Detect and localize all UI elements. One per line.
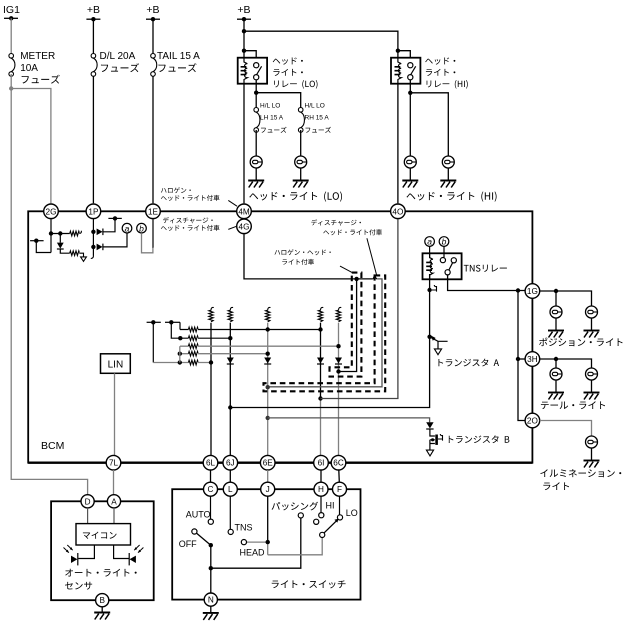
wire a to TNS coil [429, 246, 431, 257]
svg-text:F: F [337, 485, 342, 494]
svg-text:D: D [85, 497, 91, 506]
pointer discharge to 4G [228, 226, 237, 229]
svg-text:10A: 10A [20, 63, 38, 74]
connector 4G [237, 219, 252, 234]
svg-text:1P: 1P [88, 207, 99, 216]
wire b to TNS contact [443, 246, 445, 257]
label METER 10A fuse [20, 51, 60, 84]
svg-text:H/L LO: H/L LO [260, 102, 280, 109]
svg-text:3H: 3H [527, 355, 538, 364]
wire lamp LH to ground [255, 168, 257, 181]
connector 7L [106, 455, 121, 470]
connector 1G [525, 284, 540, 299]
label tail light [541, 401, 605, 409]
wire METER fuse down left side to sensor D [9, 74, 88, 495]
photodiode right [129, 553, 136, 565]
wire b to 1E [142, 233, 153, 253]
svg-text:N: N [208, 596, 214, 605]
node stub A [147, 320, 161, 324]
ground position LH [548, 331, 564, 338]
wire TNS contact to 1G [448, 275, 525, 293]
wire 6I to H [320, 470, 322, 482]
microcomputer box [76, 524, 131, 545]
relay TNS coil [430, 253, 433, 279]
label light switch [272, 580, 346, 588]
wire transistor A line to 6J [230, 337, 429, 408]
resistor row5 [188, 360, 198, 365]
node IG1 terminal [4, 16, 18, 20]
wire 6L column [210, 323, 212, 456]
label D/L 20A fuse [100, 51, 140, 72]
svg-text:6C: 6C [333, 459, 344, 468]
wire diode to internal node [103, 218, 115, 231]
lamp illumination [51, 436, 621, 620]
connector D [81, 495, 94, 508]
wire 3H to tail lamps [540, 357, 592, 368]
resistor pull-up 6J column [228, 307, 233, 321]
resistor to reference triangle [70, 251, 80, 256]
transistor Q A [427, 335, 447, 355]
wire rows 3-4-5 tie [179, 346, 181, 362]
wire C to AUTO contact [210, 496, 212, 519]
wire N to ground [210, 606, 212, 613]
lamp position LH [51, 306, 622, 620]
ground light switch N [203, 613, 219, 620]
switch arm main [197, 533, 213, 547]
wire 2G internal [49, 219, 53, 253]
wire row1 [180, 327, 323, 331]
wire stub to 2G column [36, 241, 51, 253]
wire tail lamps to ground [556, 380, 592, 393]
wire lamp RH to ground [300, 168, 302, 181]
wire LIN to 7L [114, 373, 116, 455]
svg-text:HI: HI [326, 501, 335, 511]
svg-text:H: H [318, 485, 324, 494]
label TAIL 15 A fuse [157, 51, 200, 72]
label halogen variant (4M) [161, 187, 220, 201]
label position light [539, 338, 623, 347]
light switch box [172, 489, 360, 599]
connector B [96, 594, 109, 607]
wire HEAD contact [246, 541, 265, 543]
diode 2G branch [57, 234, 64, 250]
pointer halogen to dashed path [340, 266, 352, 273]
wire 6C to F [338, 470, 341, 482]
relay headlight LO box [238, 58, 267, 84]
svg-text:4O: 4O [392, 207, 403, 216]
svg-text:METER: METER [20, 51, 55, 62]
connector A [107, 495, 120, 508]
reference triangle transistor B [426, 450, 433, 456]
BCM box [28, 211, 532, 462]
wire 6J to L [229, 470, 231, 482]
LIN box [101, 354, 131, 374]
svg-text:b: b [139, 223, 144, 233]
wire HI relay contact out [408, 80, 412, 156]
svg-text:D/L 20A: D/L 20A [100, 51, 136, 62]
wire diode to resistor [60, 249, 69, 253]
wire A to microcomputer [113, 508, 115, 524]
diode 1P upper [97, 229, 103, 236]
ground headlight LO RH [293, 181, 309, 188]
svg-text:1E: 1E [148, 207, 159, 216]
lamp tail LH [51, 368, 621, 620]
wire RH fuse to lamp [300, 130, 302, 156]
resistor pull-up 6C column [336, 307, 341, 321]
wire 6E column [266, 323, 270, 456]
relay LO contact [254, 63, 262, 80]
wire row5 [153, 360, 213, 364]
relay LO coil [244, 58, 247, 84]
svg-text:7L: 7L [109, 459, 119, 468]
lamp tail RH [51, 368, 621, 620]
relay TNS contact [440, 258, 456, 275]
contact HEAD [241, 540, 246, 545]
wire 6L to C [210, 470, 212, 482]
wire J to HEAD node [266, 496, 270, 555]
svg-text:LO: LO [346, 508, 358, 518]
svg-text:6I: 6I [318, 459, 325, 468]
wire HI RH lamp to ground [447, 168, 449, 181]
dashed outline halogen variant [330, 273, 362, 377]
wire 2O to illumination lamp [540, 421, 592, 437]
label headlight relay LO [273, 57, 318, 88]
wire 6E to J [267, 470, 269, 482]
node stub B [165, 320, 180, 324]
wire passing branch [211, 518, 301, 568]
resistor row1 [188, 327, 198, 332]
wire resistor to triangle [79, 253, 83, 257]
node internal T-bar [108, 216, 121, 220]
wire branch to BCM 2G [11, 89, 51, 204]
svg-text:H/L LO: H/L LO [305, 102, 325, 109]
label headlight LO [249, 192, 342, 202]
diode 6I column [317, 358, 324, 365]
wire 1G to position lamps [540, 289, 592, 306]
wire TNS coil down [427, 274, 431, 337]
svg-text:LIN: LIN [108, 360, 124, 371]
switch arm dimmer to LO [324, 519, 339, 534]
svg-text:L: L [228, 485, 233, 494]
ground tail LH [548, 393, 564, 400]
node stub left of 2G [30, 239, 43, 243]
svg-text:4M: 4M [238, 207, 250, 216]
wire resistor tail hook [79, 231, 81, 234]
svg-text:a: a [125, 223, 130, 233]
wire 4O to 6I column [321, 219, 398, 399]
wire L to TNS contact [229, 496, 231, 529]
wire LH fuse to lamp [255, 130, 257, 156]
connector 4M [237, 204, 252, 219]
relay HI coil [398, 58, 401, 84]
wire 3H tap [518, 358, 525, 360]
lamp position RH [51, 306, 622, 620]
node tick at coil output [432, 285, 437, 292]
svg-text:BCM: BCM [41, 440, 64, 452]
wire J to dimmer common [268, 537, 323, 554]
wire 6I column [318, 323, 322, 456]
wire 1G tap down to 3H and 2O [516, 291, 525, 421]
svg-text:+B: +B [237, 4, 250, 16]
label discharge variant (inner) [311, 219, 382, 235]
wire halogen variant to 6C column [336, 279, 356, 374]
connector C [204, 482, 218, 496]
label headlight relay HI [425, 57, 468, 88]
wire 1P column end hook [91, 256, 94, 259]
node b (BCM) [137, 223, 147, 233]
label illumination light [540, 469, 621, 490]
wire +B to D/L fuse to 1P [92, 19, 94, 203]
resistor row4 [188, 351, 198, 356]
svg-text:TAIL 15 A: TAIL 15 A [157, 51, 200, 62]
wire row4 [178, 352, 270, 356]
svg-text:TNS: TNS [235, 523, 253, 533]
contact OFF [192, 529, 197, 534]
node a (BCM) [122, 223, 132, 233]
connector 1P [86, 204, 101, 219]
ground headlight LO LH [248, 181, 264, 188]
wire branch +B to HI relay [244, 31, 400, 58]
ground headlight HI LH [402, 181, 418, 188]
label discharge variant (4G) [161, 217, 220, 231]
relay TNS box [423, 253, 462, 279]
connector 2G [44, 204, 59, 219]
node +B terminal (TAIL) [146, 17, 160, 21]
photodiode left [71, 553, 78, 565]
wire 1P internal column [91, 219, 95, 256]
connector 6J [223, 455, 238, 470]
svg-text:a: a [427, 237, 432, 247]
wire illumination lamp to ground [591, 448, 593, 461]
connector H [314, 482, 328, 496]
svg-text:AUTO: AUTO [186, 510, 211, 520]
label halogen variant (inner) [274, 249, 330, 265]
wire main switch common to N [209, 545, 213, 593]
connector 6I [314, 455, 329, 470]
contact LO [337, 515, 342, 520]
svg-text:1G: 1G [527, 287, 538, 296]
wire B to ground [101, 607, 103, 613]
contact HI [319, 513, 324, 518]
wire H to HI contact [320, 496, 322, 512]
connector 2O [525, 413, 540, 428]
pointer halogen to 4M [228, 200, 237, 206]
label headlight HI [407, 192, 497, 202]
wire LO relay contact feed [244, 51, 256, 58]
diode transistor B input [426, 422, 433, 429]
connector 1E [146, 204, 161, 219]
resistor 2G row [70, 231, 80, 236]
node a (TNS) [425, 237, 435, 247]
label auto light sensor [65, 569, 137, 590]
connector L [223, 482, 237, 496]
light arrows right [134, 545, 143, 553]
node +B terminal (headlight relays) [237, 17, 251, 21]
contact TNS [228, 529, 233, 534]
ground headlight HI RH [440, 181, 456, 188]
relay headlight HI box [391, 58, 420, 84]
wire left photodiode [78, 545, 94, 559]
wire 4G to variant junction [244, 233, 372, 281]
label passing [272, 502, 319, 511]
wire stub B down to row2 [171, 322, 180, 338]
resistor pull-up 6E column [266, 307, 271, 321]
svg-text:LH 15 A: LH 15 A [260, 115, 284, 122]
label transistor A [438, 359, 499, 367]
svg-text:4G: 4G [239, 222, 250, 231]
contact dimmer rest [314, 519, 319, 524]
svg-text:A: A [111, 497, 117, 506]
wire position lamps to ground [556, 318, 592, 331]
wire 6J column [228, 323, 232, 456]
ground tail RH [584, 393, 600, 400]
wire diode to node a [103, 233, 127, 247]
relay HI contact [408, 63, 416, 80]
svg-text:2G: 2G [46, 207, 57, 216]
svg-text:6L: 6L [206, 459, 216, 468]
svg-text:HEAD: HEAD [240, 547, 266, 557]
label TNS relay [464, 265, 507, 272]
svg-text:2O: 2O [527, 416, 538, 425]
wire D to microcomputer [87, 508, 89, 524]
svg-text:6E: 6E [263, 459, 274, 468]
wire row2 [178, 336, 232, 340]
diode 6C column [335, 358, 342, 365]
svg-text:B: B [99, 596, 105, 605]
resistor row3 [188, 344, 198, 349]
diode 6E column [264, 358, 271, 365]
resistor row2 [188, 336, 198, 341]
wire LO relay coil to 4M [243, 84, 245, 204]
wire right photodiode [114, 545, 129, 559]
dashed outline discharge variant [264, 275, 386, 391]
label microcomputer [83, 532, 117, 539]
wire branch to RH fuse [256, 93, 301, 108]
wire LO relay contact out [254, 80, 258, 108]
wire HI relay contact feed [398, 51, 410, 58]
connector N [204, 593, 217, 606]
svg-text:IG1: IG1 [3, 4, 20, 16]
svg-text:6J: 6J [226, 459, 235, 468]
svg-text:+B: +B [87, 4, 100, 16]
wire row3 [180, 344, 341, 348]
wire F to LO contact [339, 496, 341, 515]
svg-text:+B: +B [146, 4, 159, 16]
contact AUTO [208, 519, 213, 524]
node +B terminal (D/L) [86, 17, 100, 21]
resistor pull-up 6I column [318, 307, 323, 321]
label transistor B [449, 435, 510, 443]
connector 4O [391, 204, 406, 219]
wire branch to HI RH lamp [410, 93, 448, 156]
diode 1P lower [97, 244, 103, 251]
wire 2G row with resistor [51, 231, 70, 235]
wire 6E to transistor B [268, 418, 430, 422]
node b (TNS) [439, 237, 449, 247]
light arrows left [64, 545, 73, 553]
diode 6J column [227, 358, 234, 365]
svg-text:J: J [266, 485, 270, 494]
auto light sensor box [51, 501, 154, 600]
wire HI relay coil to 4O [397, 84, 399, 204]
connector F [333, 482, 347, 496]
wire 1E internal [152, 219, 154, 248]
label LH fuse [260, 102, 287, 133]
wire discharge variant to 6E column [266, 279, 383, 390]
wire HI LH lamp to ground [409, 168, 411, 181]
wire +B to TAIL fuse to 1E [152, 19, 154, 203]
connector 6E [260, 455, 275, 470]
wire 6C column [338, 323, 340, 456]
svg-text:b: b [442, 237, 447, 247]
ground position RH [584, 331, 600, 338]
wire IG1 to METER fuse [10, 18, 12, 53]
wire 7L to A [113, 470, 115, 495]
connector 6L [203, 455, 218, 470]
ground illumination [584, 461, 600, 468]
svg-text:OFF: OFF [179, 539, 197, 549]
svg-text:RH 15 A: RH 15 A [305, 115, 330, 122]
transistor Q B [430, 429, 443, 450]
wire +B down to LO relay [242, 19, 246, 58]
ground sensor B [94, 613, 110, 620]
lamp headlight HI LH [28, 156, 622, 620]
connector 3H [525, 352, 540, 367]
pointer discharge to dashed path [367, 238, 377, 275]
label RH fuse [305, 102, 332, 133]
wire stub A down to row5 [152, 322, 154, 362]
wire stub B to row1 [179, 322, 181, 329]
wire break jog [372, 276, 377, 279]
reference triangle (open) [81, 257, 87, 262]
resistor pull-up 6L column [209, 307, 214, 321]
contact dimmer common [320, 532, 325, 537]
svg-text:C: C [208, 485, 214, 494]
contact passing [298, 513, 303, 518]
lamp headlight HI RH [28, 156, 622, 620]
connector 6C [331, 455, 346, 470]
connector J [261, 482, 275, 496]
